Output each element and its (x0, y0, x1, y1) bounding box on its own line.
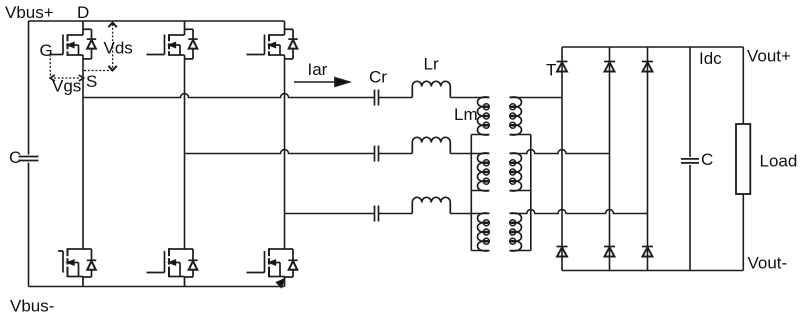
svg-text:S: S (86, 72, 97, 91)
svg-text:D: D (77, 3, 89, 22)
svg-text:T: T (546, 61, 556, 80)
svg-text:Cr: Cr (369, 68, 387, 87)
svg-text:C: C (9, 148, 21, 167)
svg-text:Vout+: Vout+ (747, 47, 791, 66)
svg-text:Lm: Lm (454, 105, 478, 124)
svg-text:Vds: Vds (104, 39, 133, 58)
svg-text:Vbus-: Vbus- (10, 297, 54, 316)
svg-text:Vout-: Vout- (748, 254, 788, 273)
svg-text:Lr: Lr (424, 55, 439, 74)
svg-text:Vgs: Vgs (52, 77, 81, 96)
svg-text:Iar: Iar (308, 60, 328, 79)
svg-text:C: C (701, 150, 713, 169)
svg-text:Load: Load (760, 152, 798, 171)
svg-text:Vbus+: Vbus+ (5, 3, 54, 22)
svg-text:G: G (40, 41, 53, 60)
svg-text:Idc: Idc (699, 49, 722, 68)
